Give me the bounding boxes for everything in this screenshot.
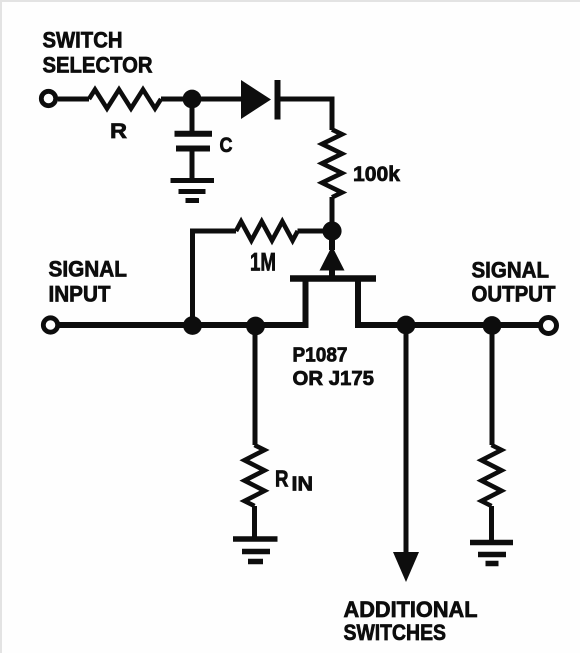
wire node C up to 1M corner [193,231,237,325]
svg-text:OUTPUT: OUTPUT [472,282,556,307]
node E (additional switches junction) [397,316,416,335]
terminal signal output [541,318,557,334]
resistor 100k [322,130,342,198]
node F (output shunt junction) [483,316,502,335]
label 100k [353,163,400,186]
capacitor C [190,99,195,132]
transistor channel bar [290,275,376,282]
label Rin [275,466,313,496]
svg-text:R: R [275,466,289,492]
node C (input/1M junction) [183,316,202,335]
wire node E down (additional switches) [404,325,409,556]
wire Rin to ground [252,506,257,538]
diode D1 [241,80,281,120]
wire terminal to R [58,97,89,102]
wire R to node A [161,97,192,102]
wire diode to corner [280,99,332,130]
label SIGNAL OUTPUT [472,258,556,307]
terminal switch selector [41,91,55,105]
label C [220,133,233,157]
transistor Q1 P1087/J175 gate arrow [329,239,335,250]
wire input line left segment [59,322,309,328]
resistor R [89,90,161,109]
svg-text:SWITCHES: SWITCHES [344,620,447,645]
svg-text:IN: IN [292,474,314,496]
resistor 1M [236,222,298,241]
svg-text:P1087: P1087 [293,345,348,367]
svg-text:OR J175: OR J175 [293,368,375,390]
resistor output shunt [482,445,502,506]
wire node F to shunt resistor [490,325,495,445]
svg-text:SIGNAL: SIGNAL [49,257,128,282]
svg-text:INPUT: INPUT [49,282,111,307]
label 1M [250,249,276,277]
terminal signal input [43,318,57,332]
wire 100k to node B [330,197,335,231]
ground under C [171,178,215,183]
resistor Rin [245,445,265,506]
wire 1M to node B [298,229,333,234]
scan edge top [0,0,580,2]
wire node A to diode [192,97,241,102]
wire output line right segment [355,322,540,328]
scan edge left [0,0,2,653]
label P1087 OR J175 [293,345,375,391]
svg-text:SWITCH: SWITCH [43,28,123,53]
arrow additional switches [393,552,419,582]
wire node D to Rin [253,325,258,445]
svg-text:1M: 1M [250,249,276,277]
node A [183,90,202,109]
svg-text:100k: 100k [353,163,400,186]
transistor drain lead [355,281,361,325]
ground under shunt resistor [470,540,513,546]
label SWITCH SELECTOR [43,28,153,78]
label ADDITIONAL SWITCHES [344,597,478,645]
svg-text:ADDITIONAL: ADDITIONAL [344,597,478,622]
ground under Rin [233,536,278,542]
node B (gate junction) [322,221,341,240]
wire shunt resistor to ground [489,506,494,541]
node D (Rin junction) [246,317,265,336]
svg-text:SIGNAL: SIGNAL [472,258,550,283]
label R [110,119,128,143]
label SIGNAL INPUT [49,257,128,307]
svg-text:R: R [110,119,128,143]
transistor source lead [303,281,309,325]
svg-text:SELECTOR: SELECTOR [43,53,153,78]
svg-text:C: C [220,133,233,157]
